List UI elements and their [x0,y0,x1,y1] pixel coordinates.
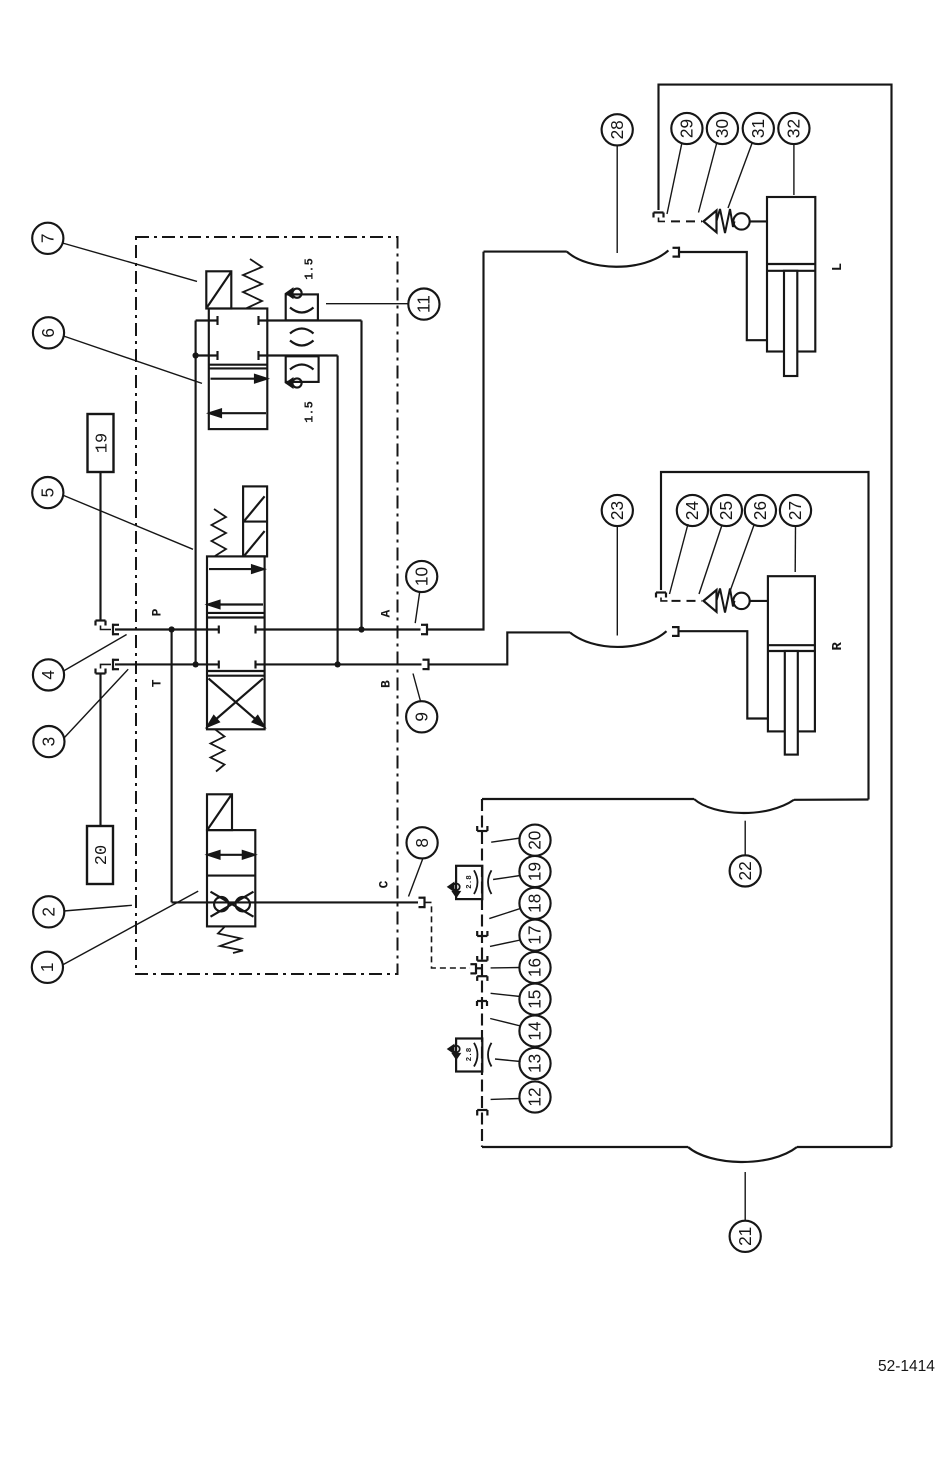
svg-text:11: 11 [414,295,434,313]
svg-text:A: A [378,610,393,618]
enclosure dash-dot border [136,237,398,974]
fitting tee 16 [470,956,487,981]
ball R [733,593,749,609]
hose 21 (lower long hose) [482,1147,892,1162]
fitting 17 [477,931,487,936]
svg-text:26: 26 [750,501,770,520]
balloon 9 [406,674,437,733]
svg-text:6: 6 [38,328,58,338]
fitting A port bracket [421,624,428,635]
svg-text:20: 20 [525,831,545,850]
svg-text:2.8: 2.8 [466,1047,474,1061]
wire V3 left ports to T-branch riser [196,321,218,665]
wire port T line [115,663,219,665]
svg-text:19: 19 [525,862,545,881]
wire dashed pilot L [671,220,702,222]
svg-text:27: 27 [785,501,805,520]
balloon 26 [729,495,776,594]
svg-text:30: 30 [712,119,732,138]
V2 crossed arrows [208,679,265,727]
balloon 7 [32,223,197,282]
svg-text:25: 25 [716,501,736,520]
balloon 16 [491,952,551,983]
fitting 20 [477,826,487,831]
svg-text:19: 19 [94,433,113,453]
balloon 15 [491,984,551,1015]
svg-text:P: P [149,608,164,616]
spring V2 bottom [211,729,225,771]
balloon 23 [602,495,633,636]
wire port B line [256,663,422,665]
wire hose R to cylinder rod end [680,631,768,718]
cylinder R barrel [768,576,815,731]
cylinder L barrel [767,197,815,352]
balloon 14 [490,1015,550,1046]
balloon 1 [32,891,198,983]
node P branch dot [169,626,175,632]
wire A riser to hose L [428,252,484,630]
svg-text:2: 2 [38,907,58,917]
balloon 12 [491,1081,551,1112]
loop R upper line [661,472,869,800]
svg-text:1.5: 1.5 [303,258,317,280]
svg-text:B: B [378,680,393,688]
fitting hose R bracket [672,626,680,637]
balloon 28 [602,114,633,253]
fitting 24 bracket [656,593,668,601]
wire ball to cylinder L [750,220,767,222]
svg-text:L: L [830,263,846,271]
svg-text:3: 3 [39,737,59,747]
svg-text:31: 31 [748,119,768,138]
wire dashed pilot R [672,600,703,602]
balloon 2 [33,896,132,927]
ball L [733,213,749,229]
wire port A line [256,628,421,630]
wire H1 from V3 port to A-line riser [259,321,362,630]
svg-text:5: 5 [37,488,57,498]
svg-text:20: 20 [93,845,112,865]
wire pilot dashed from C to tee 16 [426,902,471,968]
anchor cone L [704,211,717,233]
label box 20 [87,826,113,884]
svg-text:22: 22 [735,861,755,880]
loop L upper line [659,85,892,1147]
balloon 19 [493,856,551,887]
fitting C port bracket [419,897,426,908]
fitting B port bracket [423,659,430,670]
solenoid V2 [243,486,267,556]
svg-text:T: T [149,679,164,687]
spring L [717,209,735,233]
balloon 24 [670,495,709,594]
wire port P line [115,628,219,630]
balloon 31 [728,113,774,208]
svg-text:1: 1 [37,963,57,973]
svg-text:R: R [830,642,846,651]
balloon 13 [495,1048,551,1079]
solenoid V1 [207,794,232,830]
wire hose L to cylinder rod end [680,252,767,340]
svg-text:52-1414: 52-1414 [878,1358,935,1375]
svg-text:15: 15 [525,990,545,1009]
svg-text:10: 10 [411,567,431,586]
balloon 21 [730,1172,761,1252]
valve body V2 [207,556,265,729]
fitting 15 [477,1001,487,1006]
balloon 22 [730,821,761,887]
balloon 17 [490,920,551,951]
balloon 8 [407,827,438,896]
svg-text:24: 24 [682,501,702,521]
solenoid V3 [206,271,231,308]
balloon 11 [326,289,440,320]
node B branch dot [335,661,341,667]
svg-text:32: 32 [784,119,804,138]
fitting hose L bracket [673,247,681,258]
V2 arrow right [209,565,264,572]
cylinder R piston [768,645,815,651]
label box 19 [88,414,114,472]
svg-text:29: 29 [677,119,697,138]
node A branch dot [358,626,364,632]
fitting 29 bracket [654,213,666,222]
balloon 3 [33,669,128,757]
balloon 30 [699,113,739,213]
V1 double arrow [208,851,254,858]
throttle check unit lower (1.5 orifice) [286,356,319,387]
cylinder L piston [767,264,815,271]
spring V3 [243,259,262,309]
svg-text:28: 28 [607,120,627,139]
svg-text:4: 4 [38,670,58,680]
spring V2 top [212,509,227,556]
svg-text:21: 21 [735,1227,755,1246]
wire ball to cylinder R [750,600,768,602]
spring V1 [218,926,243,953]
node T branch dot [193,661,199,667]
svg-text:7: 7 [37,234,57,244]
svg-text:8: 8 [412,838,432,848]
spring R [717,589,735,613]
valve body V1 [207,830,255,926]
cylinder R rod [785,651,798,755]
balloon 18 [489,888,550,919]
svg-text:2.8: 2.8 [466,875,474,889]
hose to cylinder L (curved) [484,250,669,266]
svg-text:1.5: 1.5 [303,401,317,423]
balloon 25 [699,495,742,594]
fitting 12 [477,1110,487,1116]
valve body V3 [209,309,267,430]
balloon 10 [406,561,437,623]
V2 arrow left [208,601,263,608]
balloon 29 [667,113,703,214]
wire H2 from V3 port to B-line riser [259,356,338,665]
relief valve 2.8 lower (item 13 coupling) [449,1039,492,1072]
balloon 20 [491,825,550,856]
anchor cone R [704,590,717,612]
V3 arrow right [211,375,267,382]
node junction dot on riser [193,352,199,358]
V1 flow restrictor circles [211,892,254,917]
balloon 4 [33,635,127,691]
balloon 27 [780,495,811,572]
svg-text:23: 23 [607,501,627,520]
svg-text:12: 12 [525,1087,545,1106]
svg-text:13: 13 [525,1054,545,1073]
svg-text:14: 14 [525,1021,545,1041]
balloon 32 [778,113,809,195]
wire port C line [172,901,418,903]
svg-text:18: 18 [525,894,545,913]
hose to cylinder R (curved) [570,631,667,647]
balloon 6 [33,317,202,383]
balloon 5 [32,477,193,549]
hose 20 line to box label [96,664,112,826]
svg-text:16: 16 [525,958,545,977]
throttle check unit upper (1.5 orifice) [286,289,318,346]
wire B to hose R [430,632,571,664]
cylinder L rod [784,271,797,376]
fitting P port bracket [112,624,119,635]
svg-text:9: 9 [411,712,431,722]
svg-text:17: 17 [525,926,545,945]
relief valve 2.8 upper (item 19 coupling) [449,866,492,899]
svg-text:C: C [377,880,392,888]
hose 19 line to box label [96,472,112,630]
fitting T port bracket [112,659,119,670]
pipe string vertical [481,799,483,1147]
wire P branch down to flow control [171,630,173,903]
hose 22 (upper long hose) [482,799,869,813]
V3 arrow left [210,410,267,417]
